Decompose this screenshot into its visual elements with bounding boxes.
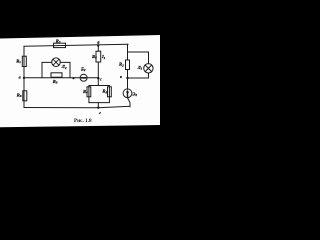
node dot combo right <box>72 77 74 79</box>
resistor R8 middle <box>96 51 101 62</box>
wire bottom bus <box>24 106 130 108</box>
resistor R7 top bus <box>54 43 66 47</box>
svg-text:R1: R1 <box>16 58 21 64</box>
parallel pair bottom bar <box>89 97 110 103</box>
svg-text:R7: R7 <box>56 39 61 45</box>
node c dot <box>97 77 99 79</box>
parallel pair top bar <box>89 86 110 97</box>
wire lamp L1 bottom return <box>128 73 149 78</box>
svg-text:I1: I1 <box>101 54 106 60</box>
wire left vertical <box>23 46 25 107</box>
wire right vertical upper <box>127 44 129 60</box>
svg-text:а: а <box>19 75 21 80</box>
lamp L1 <box>144 64 153 73</box>
resistor R3 <box>51 73 62 77</box>
svg-text:R3: R3 <box>53 79 58 85</box>
svg-text:Б2: Б2 <box>80 66 86 72</box>
wire top bus <box>24 44 128 46</box>
white figure area <box>0 35 160 127</box>
resistor R2 <box>126 60 130 70</box>
node b dot top <box>97 45 99 47</box>
svg-text:R5: R5 <box>102 89 107 95</box>
wire middle horizontal bus <box>24 77 98 79</box>
wire lamp L2 parallel loop <box>42 62 52 77</box>
svg-text:R6: R6 <box>17 92 22 98</box>
wire middle vertical lower <box>97 62 99 86</box>
wire lamp L1 top branch <box>128 52 149 64</box>
resistor R5 <box>108 87 112 97</box>
svg-text:Рис. 1.8: Рис. 1.8 <box>74 118 92 124</box>
resistor R4 <box>87 87 91 97</box>
resistor R6 left lower <box>23 91 27 101</box>
svg-text:Э2: Э2 <box>132 91 137 97</box>
battery B2 circle <box>80 74 87 81</box>
lamp L2 <box>52 58 61 67</box>
svg-text:Л2: Л2 <box>61 64 67 70</box>
node v dot right <box>126 77 128 79</box>
svg-text:с: с <box>100 77 102 82</box>
svg-text:R2: R2 <box>119 62 124 68</box>
wire right vertical middle <box>127 70 129 90</box>
svg-text:R4: R4 <box>83 89 88 95</box>
node a dot <box>23 77 25 79</box>
node g dot bottom <box>97 106 99 108</box>
source E2 circle with arrow <box>123 89 132 98</box>
svg-text:Л1: Л1 <box>137 65 143 71</box>
scan background: black page border bands <box>0 0 160 160</box>
wire pair stem <box>97 103 99 107</box>
svg-text:в: в <box>120 74 122 79</box>
resistor R1 left top <box>22 56 26 66</box>
svg-text:R8: R8 <box>92 54 97 60</box>
wire right vertical lower <box>128 98 131 107</box>
wire middle vertical upper <box>97 45 99 51</box>
battery B2 dash <box>82 77 85 79</box>
